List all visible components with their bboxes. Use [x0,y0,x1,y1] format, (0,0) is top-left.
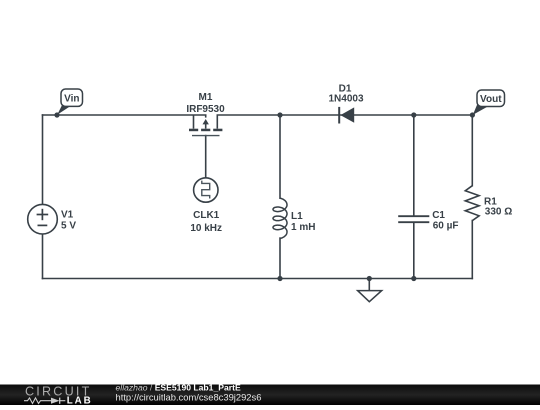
svg-text:1 mH: 1 mH [291,222,315,233]
svg-text:5 V: 5 V [61,221,76,232]
svg-text:M1: M1 [199,92,213,103]
wire R1 top [471,115,473,186]
svg-text:Vout: Vout [480,94,502,105]
node dot C1 bottom [411,276,416,281]
wire L1 top [279,115,281,198]
node dot ground [367,276,372,281]
svg-text:L1: L1 [291,211,303,222]
wire left rail lower [42,234,44,279]
wire C1 top [413,115,415,215]
ground stem [368,279,370,291]
transistor M1 gate bar [192,135,220,137]
wire L1 bottom [279,238,281,278]
wire top-right drain to Vout [217,114,472,116]
transistor M1 pads [189,129,222,132]
V1 plus sign [37,209,49,226]
svg-text:LAB: LAB [67,396,93,405]
wire top-left Vin rail [43,114,206,116]
capacitor C1 plates [398,216,429,222]
node Vin flag tail [57,104,70,115]
svg-text:10 kHz: 10 kHz [190,223,222,234]
node dot Vout tap [470,112,475,117]
svg-text:V1: V1 [61,210,74,221]
node Vout flag box [477,90,505,107]
node dot C1 top [411,112,416,117]
node dot Vin tap [54,112,59,117]
node dot L1 top [277,112,282,117]
svg-text:330 Ω: 330 Ω [485,207,512,218]
svg-text:CLK1: CLK1 [193,210,220,221]
wire bottom rail [43,278,473,280]
logo squiggle diode triangle [51,398,60,404]
ground triangle [358,291,382,302]
inductor L1 coil [273,198,287,238]
footer bar [0,385,540,406]
node dot L1 bottom [277,276,282,281]
CLK1 waveform glyph [202,181,210,199]
node Vin flag box [61,89,83,106]
clock source CLK1 circle [194,178,218,202]
diode D1 triangle [340,107,354,122]
voltage source V1 circle [28,204,58,234]
logo squiggle resistor+diode [24,398,65,404]
wire gate M1 to CLK1 [205,136,207,178]
V1 minus sign [38,224,48,226]
transistor Q M1 body [194,115,218,129]
svg-text:http://circuitlab.com/cse8c39j: http://circuitlab.com/cse8c39j292s6 [116,391,262,402]
wire C1 bottom [413,223,415,279]
transistor M1 arrow [203,119,209,124]
svg-text:IRF9530: IRF9530 [186,104,225,115]
wire left rail upper [42,115,44,204]
svg-text:60 µF: 60 µF [433,220,459,231]
svg-text:Vin: Vin [64,93,79,104]
svg-text:1N4003: 1N4003 [328,94,363,105]
wire R1 bottom [471,221,473,279]
resistor R1 zigzag [465,186,479,221]
diode D1 cathode bar [338,107,340,124]
node Vout flag tail [473,103,488,115]
